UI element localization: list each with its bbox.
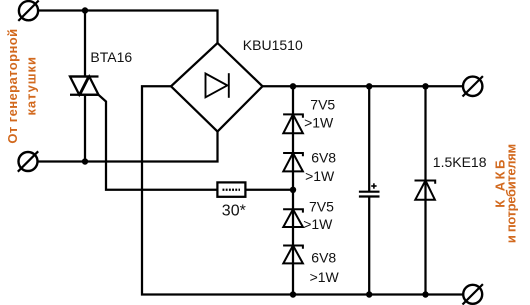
svg-text:30*: 30* <box>222 203 246 220</box>
svg-text:>1W: >1W <box>303 216 333 232</box>
svg-text:7V5: 7V5 <box>309 198 334 214</box>
svg-text:7V5: 7V5 <box>310 97 335 113</box>
svg-text:>1W: >1W <box>310 269 340 285</box>
svg-text:катушки: катушки <box>24 57 39 116</box>
svg-text:и потребителям: и потребителям <box>504 144 519 243</box>
svg-text:KBU1510: KBU1510 <box>243 37 303 53</box>
svg-text:6V8: 6V8 <box>311 250 336 266</box>
svg-text:От генераторной: От генераторной <box>5 29 20 144</box>
svg-text:6V8: 6V8 <box>311 149 336 165</box>
svg-text:BTA16: BTA16 <box>90 49 132 65</box>
svg-text:1.5KE18: 1.5KE18 <box>433 154 487 170</box>
svg-text:>1W: >1W <box>305 168 335 184</box>
svg-text:>1W: >1W <box>304 114 334 130</box>
